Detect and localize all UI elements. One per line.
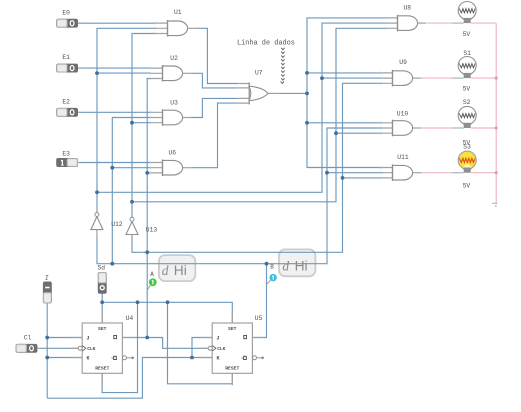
slide switch E3 (on) bbox=[56, 151, 81, 167]
svg-text:U1: U1 bbox=[174, 9, 182, 16]
junction A bus / U11.in3 bbox=[341, 176, 345, 180]
OR gate U7 (4-input) bbox=[238, 70, 279, 105]
svg-text:5V: 5V bbox=[463, 86, 471, 93]
svg-text:U9: U9 bbox=[399, 59, 407, 66]
logic probe A (green, 1) bbox=[147, 271, 156, 290]
net NOT-B: bus branch to U9.in2 bbox=[322, 77, 383, 79]
wire U3 output to U7.in3 bbox=[191, 98, 238, 117]
junction rail / S2 bbox=[495, 126, 498, 129]
wire U4.K lead bbox=[47, 357, 82, 359]
junction B branch bbox=[110, 262, 114, 266]
slide switch Cl clock (off) bbox=[16, 335, 41, 353]
display DS2 text "d Hi" bbox=[282, 258, 307, 273]
AND gate U8 bbox=[386, 4, 427, 31]
svg-text:U2: U2 bbox=[170, 55, 178, 62]
AND gate U10 bbox=[381, 110, 422, 136]
AND gate U6 bbox=[151, 149, 192, 176]
slide switch I (vertical, on) bbox=[43, 274, 52, 303]
net NOT-A: bus branch to U10.in3 bbox=[336, 132, 383, 134]
junction NOT-B / U2.in2 bbox=[95, 71, 99, 75]
net NOT-B: branch to U2.in2 bbox=[97, 72, 151, 74]
junction A / U6.in3 bbox=[145, 171, 149, 175]
net NOT-A: U13 output up x=132, branch to U1.in3 bbox=[132, 34, 156, 218]
junction I / U4.J bbox=[45, 336, 49, 340]
slide switch Sd (vertical, off) bbox=[98, 264, 107, 294]
JK flip-flop U4 bbox=[70, 311, 134, 385]
net NOT-B: run to right bus x=322 bbox=[97, 23, 388, 192]
svg-text:A: A bbox=[150, 271, 154, 278]
svg-text:5V: 5V bbox=[463, 182, 471, 189]
net B: branch vertical x=112.3 to U3.in2 bbox=[112, 118, 150, 264]
wire U1 output to U7.in1 bbox=[196, 28, 238, 83]
net A: run to U13 input and right bus x=342.5 bbox=[132, 83, 383, 252]
AND gate U2 bbox=[151, 55, 192, 82]
wire E0 to U1 input1 bbox=[79, 22, 156, 24]
display DS1 text "d Hi" bbox=[162, 263, 187, 278]
junction NOT-B bus / U9.in2 bbox=[320, 76, 324, 80]
junction Sd / U5.RESET drop bbox=[166, 300, 170, 304]
junction NOT-B to right bus bbox=[95, 190, 99, 194]
wire U4.J lead bbox=[47, 337, 82, 339]
svg-text:U3: U3 bbox=[170, 100, 178, 107]
svg-text:Linha de dados: Linha de dados bbox=[237, 40, 295, 48]
svg-text:S1: S1 bbox=[463, 50, 471, 57]
junction rail / S1 bbox=[495, 77, 498, 80]
net A: vertical x=147.2 from U4.Q, branch to U2.in3 bbox=[147, 79, 150, 338]
svg-text:U10: U10 bbox=[397, 110, 409, 117]
svg-text:Hi: Hi bbox=[295, 258, 308, 273]
AND gate U9 bbox=[381, 59, 422, 86]
lamp S0 (off) 5V bbox=[452, 2, 476, 39]
svg-text:B: B bbox=[270, 264, 274, 271]
wire lamp S1 to V+ rail bbox=[471, 77, 497, 79]
svg-text:S3: S3 bbox=[463, 144, 471, 151]
svg-text:U8: U8 bbox=[404, 4, 412, 11]
AND gate U1 bbox=[156, 9, 197, 37]
svg-text:E0: E0 bbox=[62, 9, 70, 16]
AND gate U11 bbox=[381, 154, 422, 181]
lamp S1 (off) 5V bbox=[452, 50, 476, 93]
junction DATA / U10.in1 bbox=[305, 121, 309, 125]
svg-text:E3: E3 bbox=[62, 151, 70, 158]
wire U10 output to lamp S2 bbox=[422, 127, 452, 129]
wire U2 output to U7.in2 bbox=[191, 73, 238, 88]
logic probe B (cyan, 1) bbox=[267, 264, 277, 285]
svg-text:Hi: Hi bbox=[174, 263, 187, 278]
svg-text:U4: U4 bbox=[126, 315, 134, 322]
slide switch E2 (off) bbox=[56, 99, 81, 117]
svg-text:U6: U6 bbox=[169, 149, 177, 156]
junction NOT-A bus / U10.in3 bbox=[334, 131, 338, 135]
junction Sd / U4.RESET drop bbox=[136, 300, 140, 304]
net A: branch to U6.in3 bbox=[147, 172, 150, 174]
wire E1 to U2 input1 bbox=[79, 67, 151, 69]
wire U4.Q to U5.CLK bbox=[122, 338, 208, 349]
svg-text:I: I bbox=[45, 274, 49, 281]
net DATA: bus branch to U9.in1 bbox=[307, 72, 383, 74]
junction DATA / U7 out bbox=[305, 92, 309, 96]
AND gate U3 bbox=[151, 100, 192, 126]
wire E2 to U3 input1 bbox=[79, 111, 151, 113]
junction U5 J-K tie bbox=[190, 356, 194, 360]
junction rail / S3 bbox=[495, 171, 498, 174]
wire U11 output to lamp S3 bbox=[422, 172, 452, 174]
lamp S3 (lit) 5V bbox=[452, 144, 476, 190]
junction DATA / U9.in1 bbox=[305, 71, 309, 75]
net DATA: U7 output to bus x=307 bbox=[279, 92, 307, 94]
net A: bus branch to U11.in3 bbox=[343, 177, 383, 179]
net B: U5.Q line to U12 input and right bus x=327 bbox=[97, 128, 383, 264]
annotation "Linha de dados" with arrow bbox=[237, 40, 295, 84]
wire U8 output to lamp S0 bbox=[427, 22, 452, 24]
net Sd: drop to U5.RESET bbox=[168, 302, 233, 384]
net NOT-B: U12 output up x=97, branch to U1.in2 bbox=[97, 28, 156, 212]
net DATA: bus x=307 with branch to U8.in1 bbox=[307, 18, 388, 168]
wire E3 to U6 input1 bbox=[79, 162, 150, 164]
net Sd: SET line to U5.SET bbox=[102, 302, 232, 323]
logic display DS1 showing "d Hi" bbox=[159, 255, 195, 281]
svg-text:U12: U12 bbox=[111, 221, 123, 228]
net B: branch to U6.in2 bbox=[112, 167, 150, 169]
svg-text:U7: U7 bbox=[255, 70, 263, 77]
net I: switch I down x=47.2 to U4.J and U4.K bbox=[46, 303, 48, 398]
net B: bus branch to U11.in2 bbox=[327, 172, 383, 174]
wire lamp S2 to V+ rail bbox=[471, 127, 497, 129]
JK flip-flop U5 bbox=[200, 311, 264, 385]
svg-text:Sd: Sd bbox=[98, 264, 106, 271]
net I: U5.J tie to U5.K bbox=[192, 338, 212, 358]
logic display DS2 showing "d Hi" bbox=[279, 249, 315, 276]
svg-text:S2: S2 bbox=[463, 99, 471, 106]
wire lamp S0 to V+ rail bbox=[471, 22, 497, 24]
lamp S2 (off) 5V bbox=[452, 99, 476, 147]
net B: vertical from U5.Q bbox=[252, 264, 266, 338]
wire U9 output to lamp S1 bbox=[422, 77, 452, 79]
junction B at probe B bbox=[265, 262, 269, 266]
junction B bus / U11.in2 bbox=[325, 171, 329, 175]
junction NOT-A / U3.in3 bbox=[130, 121, 134, 125]
junction I / U4.K bbox=[45, 356, 49, 360]
net DATA: bus branch to U10.in1 bbox=[307, 122, 383, 124]
wire lamp S3 to V+ rail bbox=[471, 172, 497, 174]
svg-text:d: d bbox=[162, 263, 169, 278]
inverter U13 bbox=[126, 217, 157, 243]
junction NOT-A to right bus bbox=[130, 200, 134, 204]
junction A to right bus bbox=[145, 250, 149, 254]
junction B / U6.in2 bbox=[110, 166, 114, 170]
net Sd: switch Sd to SET line bbox=[101, 294, 103, 323]
svg-text:E1: E1 bbox=[62, 54, 70, 61]
inverter U12 bbox=[91, 213, 123, 239]
svg-text:5V: 5V bbox=[463, 31, 471, 38]
net Sd: drop to U4.RESET bbox=[102, 302, 137, 392]
svg-text:Cl: Cl bbox=[24, 335, 32, 342]
svg-text:U13: U13 bbox=[146, 226, 158, 233]
slide switch E0 (off) bbox=[56, 9, 81, 27]
slide switch E1 (off) bbox=[56, 54, 81, 72]
svg-text:E2: E2 bbox=[62, 99, 70, 106]
net I: bottom run to U5.J/K bbox=[47, 358, 212, 399]
V+ rail vertical to ground bbox=[495, 23, 497, 203]
svg-text:d: d bbox=[282, 258, 289, 273]
svg-text:U5: U5 bbox=[255, 315, 263, 322]
ground symbol at V+ rail bottom bbox=[492, 203, 497, 206]
net NOT-A: run to right bus x=336 bbox=[132, 28, 388, 202]
wire U6 output to U7.in4 bbox=[192, 103, 238, 168]
junction A at U4.Q bbox=[145, 336, 149, 340]
wire Cl switch to U4.CLK bbox=[40, 347, 78, 349]
net NOT-A: branch to U3.in3 bbox=[132, 122, 151, 124]
junction Sd / U4.SET bbox=[100, 300, 104, 304]
svg-text:U11: U11 bbox=[397, 154, 409, 161]
